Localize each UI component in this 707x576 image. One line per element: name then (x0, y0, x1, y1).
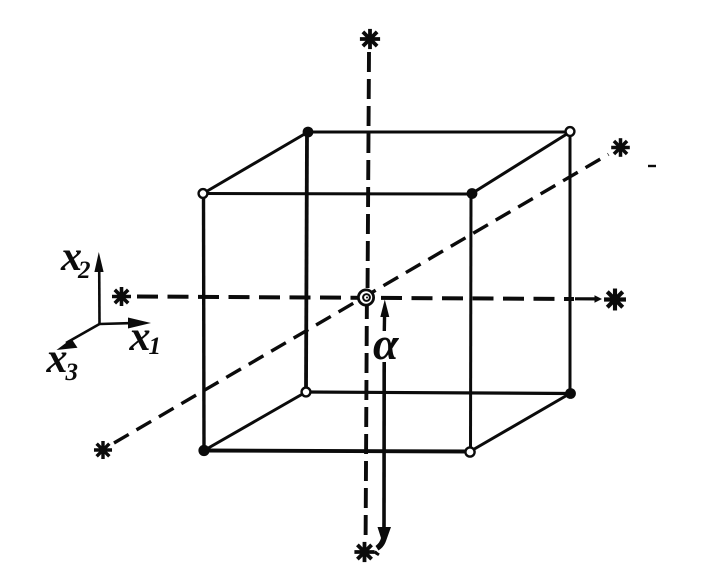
svg-text:x: x (129, 314, 151, 360)
asterisk marker diagonal upper-right (611, 138, 630, 157)
vertex TRB (open) (566, 127, 575, 136)
diagonal symmetry axis (dashed) (114, 154, 609, 443)
x1 axis arrowhead (128, 318, 151, 329)
vertex TRF (filled) (467, 188, 478, 199)
vertex TLB (filled) (303, 127, 314, 138)
cube edge bottom back (BLB-BRB) (306, 392, 570, 394)
vertex BLF (filled) (198, 445, 209, 456)
asterisk marker left (112, 287, 131, 306)
stray dash mark right side (648, 165, 656, 167)
asterisk marker right (604, 289, 626, 311)
cube edge left front vertical (TLF-BLF) (202, 194, 206, 451)
asterisk marker top (360, 29, 380, 49)
rotation arrow (double-headed, vertical) (373, 300, 391, 557)
center point (double circle) (358, 290, 373, 305)
cube edge depth bottom-right (BRF-BRB) (470, 394, 570, 452)
vertex BRF (open) (465, 447, 474, 456)
svg-text:x: x (46, 336, 68, 382)
asterisk marker diagonal lower-left (94, 441, 112, 459)
cube edge top back (TLB-TRB) (307, 131, 570, 134)
vertex BRB (filled) (565, 388, 576, 399)
horizontal axis arrowhead (right end) (575, 295, 602, 302)
cube edge depth top-right (TRF-TRB) (471, 132, 570, 194)
cube edge depth bottom-left (BLF-BLB) (204, 392, 306, 451)
vertex TLF (open) (199, 189, 208, 198)
cube edge depth top-left (TLF-TLB) (203, 132, 308, 194)
cube edge top front (TLF-TRF) (203, 192, 471, 196)
x2 axis line (98, 266, 101, 324)
cube edge left back vertical (TLB-BLB) (306, 132, 307, 392)
label x2 (60, 234, 91, 284)
svg-text:1: 1 (149, 333, 162, 360)
svg-text:2: 2 (77, 257, 91, 284)
x2 axis arrowhead (94, 252, 103, 272)
vertex BLB (open) (302, 388, 311, 397)
cube edge right front vertical (TRF-BRF) (469, 194, 473, 452)
asterisk marker bottom (354, 542, 374, 562)
svg-text:α: α (373, 318, 400, 369)
cube edge right back vertical (TRB-BRB) (569, 132, 572, 394)
cube edge bottom front (BLF-BRF) (204, 451, 470, 452)
x1 axis line (100, 323, 134, 324)
label alpha (373, 318, 400, 369)
x3 axis arrowhead (57, 339, 78, 350)
coordinate axes origin (66, 266, 133, 343)
label x1 (129, 314, 162, 360)
horizontal symmetry axis (dashed) (137, 297, 574, 300)
vertical symmetry axis (dashed) (366, 52, 369, 539)
label x3 (46, 336, 79, 386)
x3 axis line (66, 324, 100, 343)
svg-text:3: 3 (65, 359, 79, 386)
